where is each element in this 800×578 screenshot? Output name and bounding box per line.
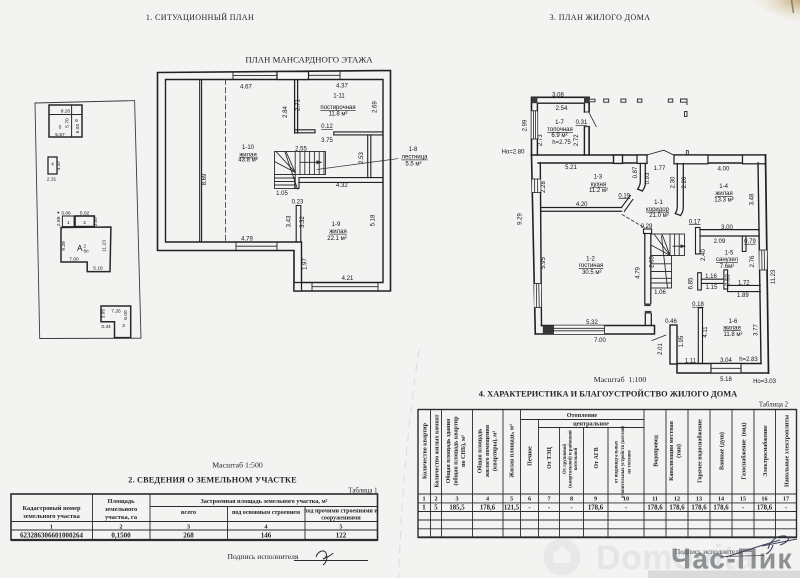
svg-text:4.32: 4.32 <box>336 183 348 189</box>
svg-text:1-7: 1-7 <box>555 120 564 126</box>
svg-text:3.43: 3.43 <box>287 215 293 227</box>
svg-text:От АГВ: От АГВ <box>594 447 600 468</box>
svg-text:11.23: 11.23 <box>101 240 107 252</box>
svg-text:11: 11 <box>652 496 658 503</box>
svg-text:2.84: 2.84 <box>283 106 289 118</box>
svg-text:0.18: 0.18 <box>692 302 704 308</box>
table1 vertical borders <box>93 494 306 540</box>
svg-text:623286306601000264: 623286306601000264 <box>20 532 84 540</box>
annex left wall window <box>532 111 538 139</box>
svg-text:ПЛАН МАНСАРДНОГО ЭТАЖА: ПЛАН МАНСАРДНОГО ЭТАЖА <box>245 54 373 64</box>
svg-text:всего: всего <box>181 509 196 516</box>
porch dashed outline <box>604 99 687 117</box>
top wall window D <box>743 155 766 164</box>
top wall window A <box>614 155 623 163</box>
svg-text:1-5: 1-5 <box>725 250 734 256</box>
leader line to 1-8 label <box>317 159 398 170</box>
svg-text:6.9 м²: 6.9 м² <box>551 133 567 139</box>
ground floor staircase <box>651 234 685 288</box>
svg-text:1-10: 1-10 <box>242 145 255 151</box>
room 1-11 bottom wall right segment <box>334 132 383 135</box>
svg-text:Таблица 2: Таблица 2 <box>759 402 789 409</box>
svg-text:4.00: 4.00 <box>718 167 730 173</box>
svg-text:Жилая площадь, м²: Жилая площадь, м² <box>510 424 516 478</box>
table2 outer border <box>418 410 797 538</box>
svg-text:1-11: 1-11 <box>333 94 345 100</box>
svg-text:5: 5 <box>434 505 438 512</box>
svg-text:Масштаб 1:500: Масштаб 1:500 <box>212 461 263 470</box>
svg-text:5.18: 5.18 <box>371 214 377 226</box>
attic inner wall outline <box>166 80 384 283</box>
svg-text:30.5 м²: 30.5 м² <box>582 270 601 276</box>
ground stair arrow <box>673 245 683 247</box>
bottom-right wall <box>677 364 769 374</box>
sheds 1 and 2 <box>62 216 74 227</box>
svg-text:жилого помещения: жилого помещения <box>485 424 491 477</box>
svg-text:Подпись исполнителя: Подпись исполнителя <box>228 552 299 561</box>
svg-text:1-6: 1-6 <box>729 319 738 325</box>
sanuzel wall 3.00 with stub 0.17 <box>696 228 701 255</box>
wall foot below 4.32 left end <box>295 178 299 189</box>
svg-text:13.3 м²: 13.3 м² <box>714 197 733 203</box>
svg-text:3.34: 3.34 <box>101 324 111 330</box>
left wall living room window <box>534 284 541 308</box>
svg-text:1.97: 1.97 <box>302 258 308 270</box>
svg-text:1: 1 <box>50 524 53 531</box>
svg-text:лестница: лестница <box>401 155 428 161</box>
stub 0.79 <box>742 236 746 252</box>
svg-text:жилая: жилая <box>723 325 740 331</box>
svg-text:2.53: 2.53 <box>359 152 365 164</box>
svg-text:4.20: 4.20 <box>576 202 588 208</box>
svg-text:Количество квартир: Количество квартир <box>423 422 429 479</box>
svg-text:5.21: 5.21 <box>565 165 577 171</box>
svg-text:1. СИТУАЦИОННЫЙ ПЛАН: 1. СИТУАЦИОННЫЙ ПЛАН <box>146 13 254 22</box>
svg-text:Отопление: Отопление <box>567 412 598 419</box>
svg-text:43.8 м²: 43.8 м² <box>238 158 257 164</box>
left wall kitchen window <box>532 179 541 193</box>
svg-text:178,6: 178,6 <box>757 505 773 512</box>
svg-text:Газоснабжение (вид): Газоснабжение (вид) <box>741 423 748 480</box>
svg-text:под основным строением: под основным строением <box>232 510 300 516</box>
svg-text:Застроенная площадь земельного: Застроенная площадь земельного участка, … <box>200 498 327 505</box>
main house A2/bl outline <box>61 227 111 272</box>
attic staircase <box>275 152 326 190</box>
sanuzel lower wall stub1 <box>698 273 702 290</box>
table1 outer border <box>11 494 378 540</box>
sanuzel lower stub2 <box>724 270 728 289</box>
small wall 0.23 between 1-10 and 1-9 <box>296 206 301 243</box>
svg-text:0.79: 0.79 <box>744 239 756 245</box>
interior partition double line (room 1-10) <box>199 80 201 243</box>
svg-text:5.70: 5.70 <box>65 118 71 128</box>
svg-text:бл: бл <box>84 249 89 254</box>
building 3 outline <box>101 306 131 338</box>
svg-text:3.04: 3.04 <box>720 358 732 364</box>
values row <box>422 505 788 512</box>
svg-text:2.87: 2.87 <box>93 216 99 226</box>
svg-text:9.29: 9.29 <box>61 241 67 251</box>
main house left wall <box>532 155 536 334</box>
svg-text:3.00: 3.00 <box>721 225 733 231</box>
svg-text:1-4: 1-4 <box>719 184 728 190</box>
table2 heating span borders <box>521 420 645 428</box>
dashed path kitchen to stairs <box>622 215 645 229</box>
svg-text:3: 3 <box>187 524 190 531</box>
svg-text:1.72: 1.72 <box>738 281 750 287</box>
svg-text:2.54: 2.54 <box>556 106 568 112</box>
svg-text:Количество жилых комнат: Количество жилых комнат <box>435 414 441 487</box>
svg-text:3. ПЛАН ЖИЛОГО ДОМА: 3. ПЛАН ЖИЛОГО ДОМА <box>550 13 651 22</box>
svg-text:Общая площадь здания: Общая площадь здания <box>445 418 452 483</box>
pier 0.46 <box>670 325 677 364</box>
svg-text:12: 12 <box>674 496 680 503</box>
svg-text:17: 17 <box>783 496 789 503</box>
svg-text:0.87: 0.87 <box>633 166 639 178</box>
svg-text:2.40: 2.40 <box>701 249 707 261</box>
svg-text:1.95: 1.95 <box>679 335 685 347</box>
svg-text:по СНБ), м²: по СНБ), м² <box>460 435 467 467</box>
svg-text:отопительных устройств (котлов: отопительных устройств (котлов) <box>621 426 626 498</box>
svg-text:4.67: 4.67 <box>240 85 252 91</box>
svg-text:1.77: 1.77 <box>654 166 666 172</box>
svg-text:4: 4 <box>486 496 489 503</box>
ground floor dimension labels <box>502 93 777 385</box>
svg-text:22.1 м²: 22.1 м² <box>327 236 346 242</box>
svg-text:Электроснабжение: Электроснабжение <box>762 425 769 477</box>
svg-text:7: 7 <box>547 496 550 503</box>
svg-text:0.17: 0.17 <box>689 219 701 225</box>
svg-text:146: 146 <box>261 532 272 540</box>
annex right wall door cap <box>584 111 589 113</box>
svg-text:участка, га: участка, га <box>105 514 138 521</box>
attic bottom wall window (room 1-10) <box>236 242 277 251</box>
svg-text:2.55: 2.55 <box>295 147 307 153</box>
svg-text:2.65: 2.65 <box>650 256 656 268</box>
svg-text:4.11: 4.11 <box>703 326 709 338</box>
svg-text:16: 16 <box>761 496 767 503</box>
svg-text:6.00: 6.00 <box>75 123 81 133</box>
sanuzel lower band1 <box>701 279 725 283</box>
svg-text:земельного: земельного <box>105 506 137 513</box>
svg-text:3.32: 3.32 <box>300 216 306 228</box>
svg-text:постирочная: постирочная <box>320 105 355 111</box>
svg-text:1-2: 1-2 <box>586 257 595 263</box>
svg-text:3: 3 <box>122 323 125 329</box>
attic outer wall outline <box>158 71 391 292</box>
svg-text:6: 6 <box>528 496 531 503</box>
svg-text:(квартальной) и районной: (квартальной) и районной <box>569 430 574 488</box>
svg-text:8.20: 8.20 <box>61 109 71 115</box>
annex door swing <box>590 114 597 127</box>
annex outer wall <box>532 97 590 155</box>
svg-text:10: 10 <box>623 496 629 503</box>
sanuzel lower band2 <box>728 285 761 291</box>
svg-text:13: 13 <box>696 496 702 503</box>
svg-text:1-9: 1-9 <box>332 222 341 228</box>
svg-text:178,6: 178,6 <box>647 505 663 512</box>
table2 vertical borders <box>431 410 776 538</box>
svg-text:178,6: 178,6 <box>669 505 685 512</box>
svg-text:санузел: санузел <box>716 257 738 263</box>
svg-text:178,6: 178,6 <box>691 505 707 512</box>
right wall <box>766 155 769 373</box>
svg-text:268: 268 <box>183 532 194 540</box>
svg-text:3.95: 3.95 <box>101 308 107 318</box>
svg-text:9: 9 <box>594 496 597 503</box>
svg-text:5: 5 <box>339 524 342 531</box>
svg-text:гостиная: гостиная <box>579 263 603 269</box>
right wall window <box>759 250 767 270</box>
svg-text:0.50: 0.50 <box>726 274 732 286</box>
svg-text:5.57: 5.57 <box>55 132 65 138</box>
svg-text:(общая площадь квартир: (общая площадь квартир <box>453 416 460 486</box>
kitchen door leaf <box>622 196 633 212</box>
svg-text:1: 1 <box>67 220 70 226</box>
svg-text:6: 6 <box>75 118 78 124</box>
svg-text:5.18: 5.18 <box>720 377 732 383</box>
signature squiggle table2 <box>726 536 797 557</box>
building 4 outline <box>48 157 57 174</box>
svg-text:4.37: 4.37 <box>336 84 348 90</box>
table1 bottom thick border <box>11 539 378 541</box>
svg-text:121,5: 121,5 <box>504 505 520 512</box>
svg-text:Масштаб 1:100: Масштаб 1:100 <box>594 375 647 384</box>
wall 4.32 (stair landing to right wall) <box>299 178 383 183</box>
svg-text:5.32: 5.32 <box>586 320 598 326</box>
svg-text:21.0 м²: 21.0 м² <box>649 213 668 219</box>
vestibule wall stub <box>638 164 646 192</box>
svg-text:0,1500: 0,1500 <box>111 532 131 540</box>
svg-text:6.00: 6.00 <box>123 310 129 320</box>
svg-text:жилая: жилая <box>329 229 346 235</box>
svg-text:2.89: 2.89 <box>56 216 62 226</box>
svg-text:5.18: 5.18 <box>93 266 103 272</box>
svg-text:2.26: 2.26 <box>682 176 688 188</box>
svg-text:1-8: 1-8 <box>409 147 418 153</box>
svg-text:1-3: 1-3 <box>593 175 602 181</box>
svg-text:14: 14 <box>718 496 724 503</box>
corridor/room1-4 hanging wall <box>675 164 683 216</box>
svg-text:Но=3.03: Но=3.03 <box>753 379 777 385</box>
svg-text:9.29: 9.29 <box>518 213 524 225</box>
svg-text:5: 5 <box>59 125 62 131</box>
svg-text:5.5 м²: 5.5 м² <box>405 162 421 168</box>
svg-text:1.16: 1.16 <box>705 274 717 280</box>
svg-text:3.77: 3.77 <box>754 324 760 336</box>
svg-text:3: 3 <box>455 496 458 503</box>
svg-text:2: 2 <box>434 496 437 503</box>
svg-text:178,6: 178,6 <box>588 505 604 512</box>
svg-text:3.75: 3.75 <box>321 138 333 144</box>
bottom-left wall <box>535 326 654 335</box>
svg-text:0.46: 0.46 <box>665 319 677 325</box>
svg-text:2.31: 2.31 <box>47 177 57 183</box>
svg-text:2.30: 2.30 <box>671 176 677 188</box>
svg-text:1: 1 <box>422 496 425 503</box>
svg-text:От ТЭЦ: От ТЭЦ <box>547 447 553 469</box>
svg-text:Горячее водоснабжение: Горячее водоснабжение <box>697 419 704 483</box>
top wall big window C <box>674 155 708 164</box>
building 5 outline <box>49 105 82 137</box>
svg-text:8.69: 8.69 <box>202 173 208 185</box>
svg-text:А: А <box>77 244 83 253</box>
svg-text:185,5: 185,5 <box>449 505 465 512</box>
svg-text:7.00: 7.00 <box>69 257 79 263</box>
svg-text:2.69: 2.69 <box>373 101 379 113</box>
stairs wall door jambs <box>644 304 651 307</box>
svg-text:0.23: 0.23 <box>292 199 304 205</box>
stairs wall with cap 0.29 <box>644 229 652 234</box>
attic top wall pier block <box>277 72 309 80</box>
attic top wall window 2 <box>309 71 341 80</box>
kitchen bottom wall 4.20 <box>541 208 622 212</box>
svg-text:4.37: 4.37 <box>56 160 62 170</box>
svg-text:Общая площадь: Общая площадь <box>477 428 484 473</box>
entrance opening V mark <box>647 150 674 155</box>
dashed line room 1-10 <box>225 80 227 243</box>
svg-text:4. ХАРАКТЕРИСТИКА И БЛАГОУСТРО: 4. ХАРАКТЕРИСТИКА И БЛАГОУСТРОЙСТВО ЖИЛО… <box>479 390 737 399</box>
svg-text:2. СВЕДЕНИЯ О ЗЕМЕЛЬНОМ УЧАСТК: 2. СВЕДЕНИЯ О ЗЕМЕЛЬНОМ УЧАСТКЕ <box>128 476 297 485</box>
svg-text:(квартиры), м²: (квартиры), м² <box>492 431 499 471</box>
watermark bottom band <box>648 571 800 578</box>
svg-text:2.71: 2.71 <box>295 99 301 111</box>
svg-text:2.99: 2.99 <box>523 119 529 131</box>
leader line at bottom opening <box>652 335 666 341</box>
page fold faint line bottom center <box>399 350 420 578</box>
svg-text:4.79: 4.79 <box>636 266 642 278</box>
svg-text:7.6м²: 7.6м² <box>720 264 734 270</box>
svg-text:Площадь: Площадь <box>108 498 136 505</box>
svg-text:От групповой: От групповой <box>563 444 568 474</box>
svg-text:сооружениями: сооружениями <box>321 516 361 522</box>
svg-text:котельной: котельной <box>574 447 579 470</box>
svg-text:11.8 м²: 11.8 м² <box>723 332 742 338</box>
svg-text:122: 122 <box>336 532 347 540</box>
svg-text:4.21: 4.21 <box>342 276 354 282</box>
annex corner blocks <box>532 97 538 103</box>
attic bottom wall window (room 1-9) <box>312 283 378 292</box>
watermark Domovita disc <box>544 539 581 576</box>
svg-text:кухня: кухня <box>591 182 606 188</box>
table1 horizontal borders <box>11 507 378 531</box>
svg-text:2.76: 2.76 <box>750 255 756 267</box>
attic dimension labels <box>202 84 379 282</box>
svg-text:1.05: 1.05 <box>276 191 288 197</box>
svg-text:1.15: 1.15 <box>706 285 718 291</box>
svg-text:от индивидуальных: от индивидуальных <box>615 440 620 483</box>
svg-text:5.02: 5.02 <box>80 210 90 216</box>
svg-text:центральное: центральное <box>573 421 609 428</box>
svg-text:3.06: 3.06 <box>61 210 71 216</box>
svg-text:h=2.83: h=2.83 <box>739 357 758 363</box>
thin wall 0.18 <box>698 308 702 364</box>
svg-text:11.2 м²: 11.2 м² <box>589 188 608 194</box>
svg-text:178,6: 178,6 <box>713 505 729 512</box>
svg-text:2.01: 2.01 <box>658 343 664 355</box>
svg-text:5: 5 <box>510 496 513 503</box>
annex inner wall <box>537 103 584 155</box>
svg-text:1.11: 1.11 <box>685 358 697 364</box>
svg-text:земельного участка: земельного участка <box>23 513 81 520</box>
svg-text:Кадастровый номер: Кадастровый номер <box>22 505 80 512</box>
svg-text:h=2.75: h=2.75 <box>552 140 571 146</box>
svg-text:1: 1 <box>422 505 426 512</box>
svg-text:Но=2.80: Но=2.80 <box>502 150 526 156</box>
signature squiggle table1 <box>316 551 333 565</box>
svg-text:2.73: 2.73 <box>538 134 544 146</box>
svg-text:3.48: 3.48 <box>750 193 756 205</box>
table2 horizontal borders <box>418 494 797 529</box>
parcel boundary <box>35 101 141 339</box>
svg-text:15: 15 <box>740 496 746 503</box>
svg-text:11.8 м²: 11.8 м² <box>328 111 347 117</box>
svg-text:0.12: 0.12 <box>321 124 333 130</box>
svg-text:(тип): (тип) <box>676 444 683 458</box>
svg-text:7.00: 7.00 <box>594 338 606 344</box>
svg-text:3.08: 3.08 <box>552 93 564 99</box>
svg-text:7.26: 7.26 <box>111 309 121 315</box>
svg-text:8: 8 <box>570 496 573 503</box>
svg-text:0.29: 0.29 <box>641 224 653 230</box>
svg-text:жилая: жилая <box>715 191 732 197</box>
svg-text:0.93: 0.93 <box>645 172 651 184</box>
svg-text:178,6: 178,6 <box>480 505 496 512</box>
svg-text:Ванные (душ): Ванные (душ) <box>719 432 726 470</box>
svg-text:0.31: 0.31 <box>576 120 588 126</box>
svg-text:11.23: 11.23 <box>771 269 777 284</box>
annex top-right pier <box>589 99 595 102</box>
svg-text:Напольные электроплиты: Напольные электроплиты <box>785 415 791 487</box>
svg-text:0.19: 0.19 <box>618 193 630 199</box>
top wall window B <box>637 155 647 163</box>
svg-text:2.28: 2.28 <box>541 181 547 193</box>
svg-text:6.85: 6.85 <box>689 277 695 289</box>
room 1-11 bottom wall left segment <box>295 130 315 133</box>
svg-text:Водопровод: Водопровод <box>654 435 660 467</box>
bottom-left wall dark corner block <box>543 326 554 334</box>
attic top wall window 1 <box>233 72 277 80</box>
svg-text:1.06: 1.06 <box>654 290 666 296</box>
svg-text:2: 2 <box>83 220 86 226</box>
svg-text:2.09: 2.09 <box>714 239 726 245</box>
attic stair direction arrow <box>300 161 320 163</box>
svg-text:2.72: 2.72 <box>574 134 580 146</box>
svg-text:4: 4 <box>51 162 54 168</box>
svg-text:под прочими строениями и: под прочими строениями и <box>304 509 378 515</box>
svg-text:1-1: 1-1 <box>654 200 663 206</box>
svg-text:на топливе: на топливе <box>628 450 633 473</box>
wall between stair and right wall <box>368 135 371 178</box>
svg-text:2: 2 <box>119 524 122 531</box>
svg-text:Печное: Печное <box>528 446 534 466</box>
svg-text:1.89: 1.89 <box>737 293 749 299</box>
svg-text:5.95: 5.95 <box>541 257 547 269</box>
main house top wall <box>532 154 766 156</box>
bottom-left wall window <box>554 326 605 335</box>
room 1-11 left wall <box>294 80 296 134</box>
svg-text:4.79: 4.79 <box>241 237 253 243</box>
svg-text:Канализация местная: Канализация местная <box>669 420 675 481</box>
bottom-right wall window <box>711 364 741 374</box>
attic step corner block <box>294 283 302 292</box>
